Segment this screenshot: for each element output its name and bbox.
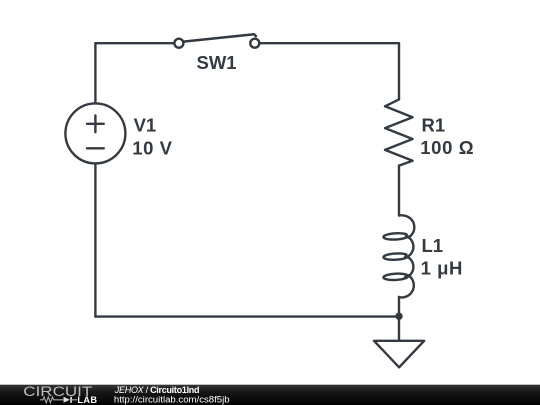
inductor L1 xyxy=(384,215,415,297)
svg-text:JEHOX / Circuito1Ind: JEHOX / Circuito1Ind xyxy=(114,385,199,395)
wire top-right horizontal xyxy=(259,42,399,44)
svg-text:100 Ω: 100 Ω xyxy=(420,137,474,158)
wire inductor to node xyxy=(398,297,400,317)
wire left vertical lower xyxy=(94,164,96,317)
wire right vertical upper xyxy=(398,43,400,99)
ground xyxy=(374,317,424,368)
voltage source V1 xyxy=(65,103,125,163)
wire between resistor and inductor xyxy=(398,166,400,216)
svg-text:http://circuitlab.com/cs8f5jb: http://circuitlab.com/cs8f5jb xyxy=(114,394,230,405)
svg-text:1 μH: 1 μH xyxy=(421,258,463,279)
logo diode xyxy=(64,397,70,403)
svg-text:L1: L1 xyxy=(422,235,444,256)
node junction dot xyxy=(395,313,402,320)
logo squiggle resistor xyxy=(40,397,63,403)
svg-text:R1: R1 xyxy=(422,114,446,135)
wire left vertical upper xyxy=(94,43,96,103)
wire top-left horizontal xyxy=(95,42,174,44)
wire bottom horizontal xyxy=(95,315,399,317)
svg-text:V1: V1 xyxy=(134,114,157,135)
resistor R1 xyxy=(385,99,413,165)
footer bar xyxy=(0,385,540,405)
svg-text:10 V: 10 V xyxy=(132,138,172,159)
svg-text:SW1: SW1 xyxy=(197,52,237,73)
svg-text:LAB: LAB xyxy=(77,395,97,405)
switch SW1 xyxy=(174,34,259,47)
